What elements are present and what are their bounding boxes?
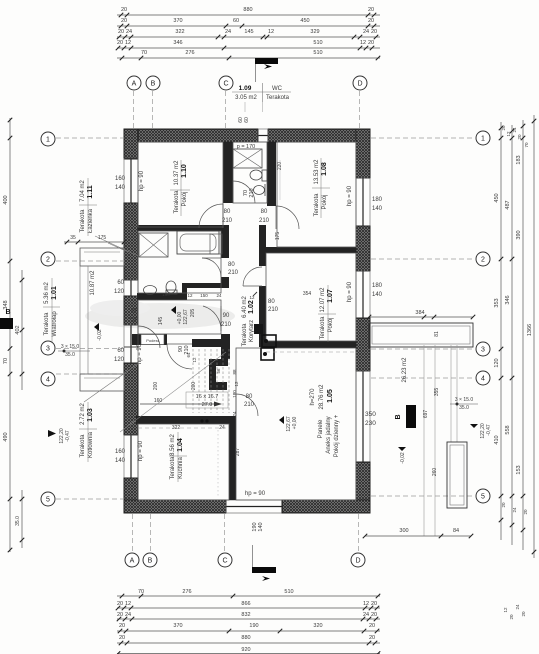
svg-text:Pokój: Pokój [328, 317, 334, 332]
stair enclosure wall spine (W8b) [209, 365, 216, 386]
bottom dimension chain row 2 (866) [117, 607, 380, 609]
svg-text:24: 24 [512, 507, 517, 513]
svg-text:350: 350 [365, 411, 376, 418]
svg-text:370: 370 [173, 623, 182, 629]
svg-text:90: 90 [223, 313, 230, 319]
fireplace box upper [262, 335, 276, 347]
top wall window 60 [258, 128, 268, 130]
leader line top-left corner to bathroom [108, 243, 128, 252]
svg-text:hp = 90: hp = 90 [139, 170, 145, 191]
WC shower tray [233, 149, 262, 168]
svg-text:3 × 15.0: 3 × 15.0 [61, 344, 79, 350]
svg-text:880: 880 [243, 7, 252, 13]
door arc corridor to living [235, 394, 237, 416]
svg-text:12: 12 [506, 131, 511, 137]
svg-text:210: 210 [268, 307, 279, 313]
svg-text:12: 12 [360, 40, 366, 46]
svg-text:370: 370 [173, 18, 182, 24]
svg-text:866: 866 [241, 601, 250, 607]
svg-text:410: 410 [494, 435, 500, 444]
handrail dots on kitchen wall [200, 419, 203, 422]
svg-text:3: 3 [46, 346, 50, 353]
leader 1.03 [84, 363, 139, 402]
svg-text:28.76 m2: 28.76 m2 [319, 384, 325, 410]
exterior wall top-left segment [124, 129, 258, 142]
svg-text:153: 153 [516, 465, 522, 474]
svg-text:20: 20 [369, 623, 375, 629]
svg-text:175: 175 [98, 235, 107, 241]
svg-text:12: 12 [268, 29, 274, 35]
bottom dimension chain row 1 (70/276/510) [117, 595, 380, 597]
door arc WC [232, 181, 234, 203]
svg-text:24: 24 [216, 293, 222, 298]
level marker right 122.20 [470, 424, 478, 428]
bathtub [177, 231, 219, 254]
svg-text:175: 175 [275, 232, 281, 241]
svg-text:Łazienka: Łazienka [88, 208, 94, 233]
svg-text:510: 510 [313, 50, 322, 56]
inner wall face outlines [138, 142, 223, 227]
svg-text:20: 20 [117, 612, 123, 618]
svg-text:210: 210 [128, 318, 139, 324]
right dimension chain col 4 [533, 115, 535, 558]
exterior wall right: pier corner bottom [356, 462, 370, 513]
grid bubble 2 left [41, 252, 55, 266]
right wall window 180/140 (upper) [369, 178, 371, 226]
svg-text:12: 12 [363, 601, 369, 607]
svg-text:24: 24 [363, 29, 369, 35]
svg-text:5.36 m2: 5.36 m2 [44, 282, 50, 304]
bottom right dim 300/84 [365, 535, 471, 537]
left dimension chain col 1 [9, 118, 11, 552]
svg-text:20: 20 [118, 29, 124, 35]
interior wall bathroom bottom stepped (W5) [182, 283, 229, 288]
svg-text:190: 190 [249, 623, 258, 629]
svg-text:20: 20 [369, 635, 375, 641]
svg-text:27.0: 27.0 [202, 402, 213, 408]
svg-text:60: 60 [117, 348, 124, 354]
svg-text:24: 24 [125, 612, 131, 618]
svg-text:B: B [5, 309, 10, 316]
svg-text:26.23 m2: 26.23 m2 [402, 357, 408, 383]
stairs treads (dashed verticals) [192, 349, 194, 413]
left wall entrance door 90/210 [123, 325, 125, 347]
svg-text:D: D [355, 558, 360, 565]
svg-text:487: 487 [505, 200, 511, 209]
svg-text:Podest: Podest [146, 338, 159, 343]
axis dashes top [133, 91, 135, 128]
svg-text:183: 183 [516, 155, 522, 164]
section marker A (bottom) [252, 545, 254, 567]
interior wall hall bottom (W6) [132, 334, 167, 345]
grid bubble 5 left [41, 492, 55, 506]
svg-text:-0,47: -0,47 [65, 430, 71, 442]
bottom dimension chain row 4 (370/190/320) [117, 630, 380, 632]
lower terrace slab [447, 442, 467, 508]
axis dashes left [56, 137, 123, 139]
svg-text:510: 510 [313, 40, 322, 46]
svg-text:20: 20 [121, 7, 127, 13]
svg-text:3 × 15.0: 3 × 15.0 [455, 397, 473, 403]
svg-text:490: 490 [3, 432, 9, 441]
podest entrance [141, 335, 164, 345]
svg-text:140: 140 [372, 292, 383, 298]
dim 35/175 left [64, 241, 126, 243]
svg-text:7.04 m2: 7.04 m2 [80, 180, 86, 202]
svg-text:10.37 m2: 10.37 m2 [174, 160, 180, 186]
grid bubble 4 left [41, 372, 55, 386]
svg-text:1366: 1366 [527, 324, 533, 336]
svg-text:1.02: 1.02 [248, 300, 255, 314]
svg-text:60: 60 [117, 280, 124, 286]
svg-text:287: 287 [235, 448, 241, 457]
door arc to room 1.10 [222, 204, 224, 228]
interior wall bathroom top (W3) [138, 225, 229, 231]
svg-text:210: 210 [222, 218, 233, 224]
left wall window 60/120 (upper) [123, 280, 125, 296]
svg-text:Pokój: Pokój [322, 194, 328, 209]
svg-text:24: 24 [126, 29, 132, 35]
svg-text:A: A [132, 81, 137, 88]
svg-text:12: 12 [234, 381, 239, 387]
svg-text:140: 140 [115, 458, 126, 464]
grid bubble B top [146, 76, 160, 90]
grid bubble C bottom [218, 553, 232, 567]
svg-text:160: 160 [162, 292, 170, 297]
door arc bathroom [202, 257, 221, 259]
svg-text:150: 150 [200, 293, 208, 298]
svg-text:200: 200 [191, 382, 197, 391]
svg-text:64: 64 [186, 352, 191, 358]
upper terrace dim 384 [369, 316, 473, 318]
svg-text:81: 81 [434, 331, 440, 337]
svg-text:35.0: 35.0 [459, 405, 469, 411]
svg-text:80: 80 [246, 394, 253, 400]
svg-text:Pokój: Pokój [182, 191, 188, 206]
bathroom shower tray [139, 233, 168, 257]
svg-text:920: 920 [241, 647, 250, 653]
svg-text:Terakota: Terakota [174, 190, 180, 214]
svg-text:329: 329 [310, 29, 319, 35]
axis dashes bottom [132, 514, 134, 552]
interior wall WC right (V2) [267, 142, 276, 206]
top dimension chain row 3 (322/145/329) [117, 36, 380, 38]
svg-text:20: 20 [117, 40, 123, 46]
svg-text:20: 20 [501, 125, 506, 131]
svg-text:346: 346 [505, 295, 511, 304]
svg-text:210: 210 [244, 402, 255, 408]
exterior wall bottom-right segment [282, 500, 370, 513]
svg-text:276: 276 [182, 589, 191, 595]
svg-text:Korytarz: Korytarz [249, 320, 255, 342]
svg-text:12: 12 [249, 295, 255, 300]
svg-text:354: 354 [303, 291, 312, 297]
svg-text:A: A [130, 558, 135, 565]
interior wall WC left (V1) [223, 142, 233, 203]
interior wall 1.08/1.07 divider (W12) [266, 247, 356, 253]
grid bubble A top [127, 76, 141, 90]
right dimension chain col 3 [522, 120, 524, 550]
svg-text:12: 12 [125, 601, 131, 607]
svg-text:24: 24 [363, 612, 369, 618]
svg-text:24: 24 [515, 604, 520, 610]
svg-text:70: 70 [138, 589, 144, 595]
grid bubble 3 left [41, 341, 55, 355]
svg-text:6.40 m2: 6.40 m2 [242, 296, 248, 318]
svg-text:1: 1 [46, 137, 50, 144]
grid bubble 2 right [476, 252, 490, 266]
svg-text:90: 90 [131, 309, 138, 315]
interior wall 1.07/1.05 divider (W13) [266, 341, 356, 348]
svg-text:20: 20 [368, 18, 374, 24]
svg-text:B: B [151, 81, 156, 88]
svg-text:80: 80 [228, 262, 235, 268]
svg-text:2: 2 [46, 257, 50, 264]
svg-text:80: 80 [261, 209, 268, 215]
stairs leader diagonal [120, 352, 226, 432]
door arc corridor to 1.07 [243, 285, 262, 287]
interior wall stair stub (W7) [221, 334, 230, 359]
grid bubble D bottom [351, 553, 365, 567]
bottom wall window 190/140 [226, 499, 282, 501]
leader 1.11 [95, 236, 138, 256]
svg-text:1.08: 1.08 [321, 162, 328, 176]
left dimension chain col 2 [21, 270, 23, 390]
hall level marker [171, 306, 176, 314]
stair enclosure wall bottom arm (W8c) [209, 382, 227, 390]
svg-text:hp = 90: hp = 90 [347, 281, 353, 302]
upper terrace slab [369, 323, 473, 347]
exterior wall left: pier corner bottom [124, 478, 138, 513]
svg-text:24: 24 [225, 29, 231, 35]
exterior entry strip [80, 248, 124, 266]
svg-text:13.53 m2: 13.53 m2 [314, 159, 320, 185]
interior wall corridor left mid (W4b) [221, 277, 229, 288]
WC toilet [250, 170, 262, 180]
left wall window 160/140 (lower) [123, 435, 125, 478]
svg-text:1.10: 1.10 [181, 164, 188, 178]
grid bubble 5 right [476, 489, 490, 503]
svg-text:120: 120 [114, 289, 125, 295]
section marker A (top) [255, 58, 278, 64]
svg-text:120: 120 [114, 357, 125, 363]
WC washbasin [254, 186, 265, 195]
interior wall kitchen/living (W10) [229, 416, 236, 500]
svg-text:346: 346 [173, 40, 182, 46]
svg-text:140: 140 [115, 185, 126, 191]
svg-text:B: B [395, 414, 402, 419]
svg-text:180: 180 [372, 283, 383, 289]
svg-text:88: 88 [232, 369, 237, 375]
svg-text:70: 70 [141, 50, 147, 56]
svg-text:20: 20 [119, 635, 125, 641]
svg-text:450: 450 [494, 193, 500, 202]
svg-text:20: 20 [371, 29, 377, 35]
svg-text:20: 20 [517, 134, 522, 140]
svg-text:402: 402 [15, 325, 21, 334]
svg-text:60: 60 [244, 117, 250, 123]
svg-text:230: 230 [365, 420, 376, 427]
svg-text:122,67: 122,67 [183, 309, 189, 325]
svg-text:3.05 m2: 3.05 m2 [235, 95, 257, 101]
svg-text:Terakota: Terakota [170, 456, 176, 480]
svg-text:120: 120 [494, 358, 500, 367]
svg-text:210: 210 [259, 218, 270, 224]
section marker B right [406, 405, 416, 428]
left wall window 160/140 [123, 158, 125, 203]
svg-text:20: 20 [117, 601, 123, 607]
left wall window 60/120 (lower) [123, 347, 125, 363]
bathroom toilet [166, 281, 176, 293]
right dimension chain col 1 [500, 122, 502, 540]
top dimension chain row 2 (370/60/450) [117, 25, 380, 27]
svg-text:160: 160 [115, 449, 126, 455]
svg-text:12: 12 [187, 293, 193, 298]
svg-text:384: 384 [415, 310, 424, 316]
svg-text:1.09: 1.09 [239, 85, 252, 92]
svg-text:400: 400 [3, 195, 9, 204]
svg-text:355: 355 [434, 388, 440, 397]
interior wall kitchen top (W9) [136, 416, 229, 424]
svg-text:C: C [223, 81, 228, 88]
stair enclosure wall top arm (W8a) [209, 359, 228, 366]
svg-text:880: 880 [241, 635, 250, 641]
svg-text:1: 1 [481, 136, 485, 143]
exterior wall left: pier 3 [124, 296, 138, 325]
svg-text:3: 3 [481, 347, 485, 354]
exterior wall right: pier corner top [356, 129, 370, 178]
level marker 122.20 left [48, 430, 56, 437]
svg-text:5: 5 [46, 497, 50, 504]
svg-text:Wiatrołap: Wiatrołap [52, 311, 58, 337]
svg-text:20: 20 [368, 7, 374, 13]
grid bubble 1 left [41, 132, 55, 146]
exterior wall right: pier 3 [356, 318, 370, 371]
grid bubble A bottom [125, 553, 139, 567]
svg-text:2: 2 [481, 257, 485, 264]
svg-text:35: 35 [70, 235, 76, 241]
svg-text:10.87 m2: 10.87 m2 [90, 270, 96, 296]
svg-text:697: 697 [423, 410, 429, 419]
svg-text:353: 353 [494, 298, 500, 307]
svg-text:20: 20 [509, 614, 514, 620]
right wall terrace door 350/230 [369, 371, 371, 462]
svg-text:20: 20 [368, 40, 374, 46]
svg-text:20: 20 [371, 601, 377, 607]
svg-text:hp = 90: hp = 90 [347, 185, 353, 206]
interior wall corridor right lower (W11b) [259, 286, 266, 347]
exterior wall top-right segment [268, 129, 370, 142]
svg-text:140: 140 [258, 522, 264, 531]
door arc to room 1.08 [275, 206, 277, 229]
svg-text:D: D [357, 81, 362, 88]
svg-text:322: 322 [175, 29, 184, 35]
bottom dimension chain row 6 (920) [117, 653, 380, 654]
svg-text:12.07 m2: 12.07 m2 [320, 287, 326, 313]
svg-text:145: 145 [244, 29, 253, 35]
door arc entrance [137, 326, 139, 348]
svg-text:Terakota: Terakota [266, 95, 290, 101]
svg-text:70: 70 [524, 142, 529, 148]
exterior wall right: pier 2 [356, 226, 370, 271]
svg-text:390: 390 [516, 230, 522, 239]
top dimension chain row 5 (70/276/510) [117, 57, 380, 59]
svg-text:8.56 m2: 8.56 m2 [170, 434, 176, 456]
svg-text:56: 56 [216, 368, 221, 374]
svg-text:60: 60 [233, 18, 239, 24]
top dimension chain row 1 (880) [117, 14, 380, 16]
svg-text:558: 558 [505, 425, 511, 434]
svg-text:210: 210 [249, 188, 255, 197]
svg-text:12: 12 [192, 357, 197, 363]
interior wall corridor right upper (W11a) [259, 225, 266, 266]
svg-text:hp = 90: hp = 90 [138, 440, 144, 461]
svg-text:84: 84 [453, 528, 459, 534]
svg-text:80: 80 [268, 299, 275, 305]
axis dashes right [371, 137, 475, 139]
svg-text:160: 160 [115, 176, 126, 182]
svg-text:Terakota: Terakota [80, 434, 86, 458]
svg-text:Aneks jadalny: Aneks jadalny [326, 416, 332, 453]
right dimension chain col 2 [511, 125, 513, 545]
svg-text:180: 180 [372, 197, 383, 203]
svg-text:24: 24 [512, 127, 517, 133]
svg-text:35.0: 35.0 [15, 516, 21, 526]
bathroom washbasin [144, 286, 157, 295]
svg-text:12: 12 [503, 607, 508, 613]
svg-text:WC: WC [272, 86, 283, 92]
scan smudge [85, 300, 235, 329]
svg-text:510: 510 [284, 589, 293, 595]
svg-text:2.72 m2: 2.72 m2 [80, 403, 86, 425]
svg-text:B: B [148, 558, 153, 565]
svg-text:Pokój dzienny +: Pokój dzienny + [334, 414, 340, 457]
svg-text:20: 20 [521, 611, 526, 617]
level marker right -0.02 [398, 447, 406, 451]
svg-text:-0,47: -0,47 [486, 424, 492, 436]
level marker living room [279, 416, 284, 424]
svg-text:Terakota: Terakota [44, 312, 50, 336]
svg-text:80: 80 [224, 209, 231, 215]
svg-text:70: 70 [3, 358, 9, 364]
top dimension chain row 4 (346/510) [117, 47, 380, 49]
interior wall corridor left upper (W4) [221, 231, 229, 258]
svg-text:20: 20 [121, 18, 127, 24]
svg-text:-0,02: -0,02 [97, 329, 103, 341]
left small ticks bottom [21, 490, 23, 548]
svg-text:200: 200 [153, 382, 159, 391]
svg-text:hp = 90: hp = 90 [137, 343, 143, 364]
level marker entry [94, 323, 99, 331]
exterior wall bottom-left segment [124, 500, 226, 513]
svg-text:Kuchnia: Kuchnia [178, 456, 184, 478]
grid bubble D top [353, 76, 367, 90]
svg-text:1.05: 1.05 [327, 389, 334, 403]
svg-text:300: 300 [399, 528, 408, 534]
grid bubble C top [219, 76, 233, 90]
exterior wall left: pier corner [124, 129, 138, 159]
door arc corridor to hall [220, 306, 222, 331]
svg-text:20: 20 [523, 509, 528, 515]
interior wall hall door jamb (W6b) [192, 339, 221, 347]
grid bubble 1 right [476, 131, 490, 145]
svg-text:320: 320 [313, 623, 322, 629]
bottom dimension chain row 5 (880) [117, 642, 380, 644]
bottom dimension chain row 3 (832) [117, 618, 380, 620]
svg-text:260: 260 [432, 468, 438, 477]
svg-text:12: 12 [125, 40, 131, 46]
svg-text:h=270: h=270 [310, 388, 316, 406]
